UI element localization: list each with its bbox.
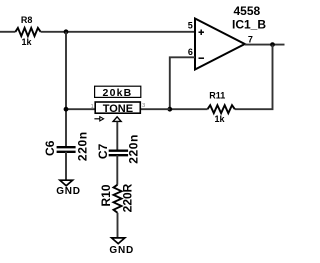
ground GND (under C6): [56, 180, 81, 197]
svg-text:IC1_B: IC1_B: [232, 18, 266, 32]
capacitor C6: [43, 131, 89, 161]
svg-text:TONE: TONE: [103, 103, 133, 115]
svg-text:220n: 220n: [127, 134, 141, 164]
svg-text:GND: GND: [56, 186, 81, 197]
svg-text:R11: R11: [209, 90, 225, 100]
svg-text:R10: R10: [99, 184, 113, 206]
potentiometer TONE body: [95, 102, 140, 115]
resistor R10 (vertical): [99, 183, 134, 212]
wire TONE pin1 to left junction: [66, 108, 95, 110]
wire output down to R11: [235, 45, 273, 110]
wire feedback node to TONE pin3: [140, 108, 170, 110]
svg-text:1k: 1k: [21, 37, 32, 47]
svg-text:5: 5: [188, 20, 193, 30]
wire R10 to GND: [117, 213, 119, 238]
svg-text:7: 7: [248, 34, 253, 44]
svg-text:C7: C7: [96, 143, 110, 159]
svg-text:C6: C6: [43, 140, 57, 156]
wire R8 to op-amp +input (pin 5): [41, 31, 195, 33]
wire R11 to feedback node: [170, 108, 208, 110]
svg-text:1k: 1k: [214, 114, 225, 124]
svg-text:R8: R8: [21, 15, 33, 25]
svg-text:220n: 220n: [75, 131, 89, 161]
resistor R8: [15, 15, 40, 47]
wire feedback: node up to op-amp -input (pin 6): [170, 57, 195, 109]
svg-text:6: 6: [188, 47, 193, 57]
TONE wiper arrow (taper direction): [94, 117, 103, 121]
wire C7 to R10: [116, 155, 118, 185]
svg-text:4558: 4558: [234, 4, 261, 18]
svg-text:1: 1: [91, 104, 94, 110]
resistor R11: [208, 90, 235, 124]
svg-text:GND: GND: [109, 245, 134, 256]
wire op-amp output pin 7: [245, 44, 285, 46]
svg-text:20kB: 20kB: [103, 87, 133, 99]
node junction R8 / TONE branch: [64, 29, 69, 34]
op-amp U1 IC1_B (4558): [195, 4, 266, 70]
wire C6 to GND: [65, 152, 67, 180]
TONE wiper contact triangle (pin 2): [113, 117, 121, 122]
node feedback junction: [167, 107, 172, 112]
wire junction down to TONE pin1 / C6: [65, 32, 67, 146]
svg-text:220R: 220R: [121, 183, 135, 212]
node output junction: [270, 42, 275, 47]
capacitor C7: [96, 134, 141, 164]
ground GND (under R10): [109, 238, 134, 256]
node TONE left junction: [64, 107, 69, 112]
wire input to R8: [0, 31, 15, 33]
svg-text:3: 3: [142, 103, 145, 109]
potentiometer TONE value label 20kB: [95, 86, 141, 99]
wire wiper down to C7: [116, 122, 118, 150]
